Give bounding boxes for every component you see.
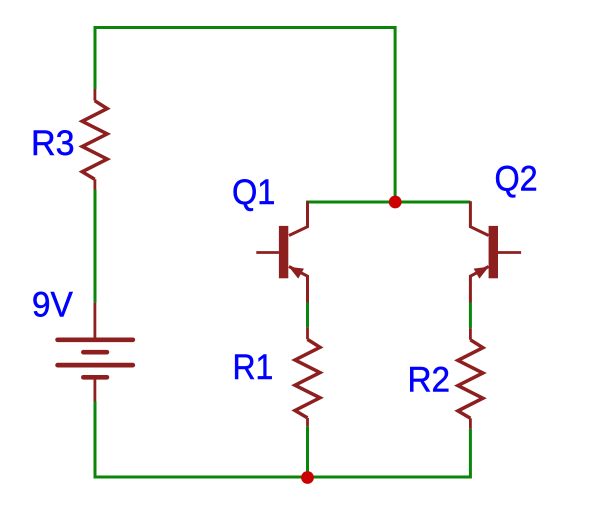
wire top loop (battery+ to node) (95, 28, 395, 203)
node collector junction (389, 196, 402, 209)
svg-text:R3: R3 (31, 124, 75, 163)
wire R1 bottom to rail (306, 426, 309, 477)
resistor R1 (295, 328, 320, 427)
svg-text:R1: R1 (233, 348, 274, 387)
resistor R3 (82, 89, 107, 190)
wire bottom rail (95, 402, 470, 478)
wire Q1 emitter to R1 (306, 302, 309, 328)
battery 9V (58, 302, 133, 401)
svg-text:Q1: Q1 (232, 173, 275, 212)
transistor Q2 (470, 201, 521, 302)
svg-text:9V: 9V (32, 286, 74, 325)
node bottom junction (301, 471, 314, 484)
svg-text:R2: R2 (408, 360, 451, 399)
wire R3 bottom to battery top (94, 190, 97, 303)
wire collector bus Q1-Q2 (306, 201, 470, 204)
wire Q2 emitter to R2 (469, 302, 472, 328)
resistor R2 (458, 328, 483, 429)
svg-text:Q2: Q2 (495, 160, 538, 199)
transistor Q1 (256, 201, 307, 302)
